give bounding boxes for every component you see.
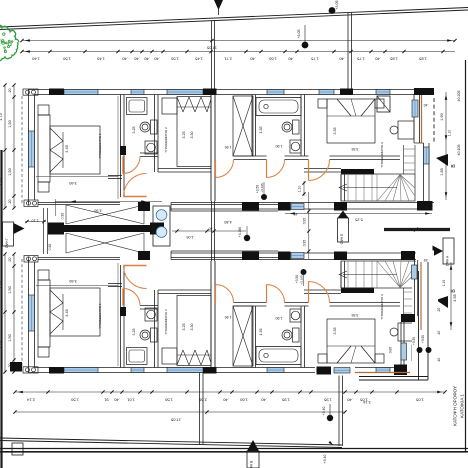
- svg-text:.40: .40: [143, 57, 149, 62]
- top house window N5: [319, 90, 334, 95]
- svg-text:.20: .20: [8, 200, 12, 205]
- top house bed bedroom1: [38, 105, 100, 192]
- bottom house sink bath1: [145, 308, 157, 321]
- bottom house balcony dashed: [433, 319, 435, 364]
- bottom house corridor wall outer: [171, 251, 434, 260]
- svg-text:1.45: 1.45: [194, 57, 203, 62]
- top house south-east corner pier: [417, 201, 433, 211]
- bottom house stair wall west: [341, 261, 345, 288]
- top house shower bath1: [127, 98, 148, 115]
- bottom house wall bath1/BR2: [155, 290, 159, 368]
- svg-text:1.73: 1.73: [0, 112, 3, 121]
- bottom house stairs lower treads: [341, 261, 415, 288]
- svg-text:.40: .40: [113, 398, 119, 403]
- dim 0.95 pair: [294, 192, 311, 259]
- bottom house window N6: [376, 368, 390, 373]
- top house dim 1.35 bath2: [259, 127, 263, 134]
- top house east window 1: [412, 100, 418, 117]
- bottom house bathtub bath2: [256, 347, 301, 365]
- svg-text:5.25: 5.25: [355, 218, 362, 222]
- level marker +3.05 mid: [297, 25, 308, 48]
- dim 5.25 below corridor: [285, 212, 432, 221]
- svg-text:ΚΑΤΟΙΚΙΑ 1: ΚΑΤΟΙΚΙΑ 1: [460, 394, 465, 418]
- svg-text:ΚΑΤΟΨΗ ΟΡΟΦΟΥ: ΚΑΤΟΨΗ ΟΡΟΦΟΥ: [453, 386, 458, 426]
- top house corridor wall outer: [171, 203, 434, 212]
- svg-text:.40: .40: [346, 398, 352, 403]
- dim 3.90 line: [55, 199, 162, 216]
- top house window N2: [131, 90, 144, 95]
- svg-text:+3.40: +3.40: [323, 455, 327, 464]
- top house south pier X column: [138, 202, 150, 211]
- bottom house mid-east pier: [401, 314, 415, 322]
- right column small dims: [424, 258, 446, 362]
- svg-text:0.92: 0.92: [61, 213, 65, 220]
- top house south-west corner detail: [24, 200, 38, 207]
- svg-text:1.01: 1.01: [126, 398, 135, 403]
- bottom house dim 1.90 bath2: [276, 316, 283, 320]
- svg-text:ΥΠΝΟΔΩΜΑΤΙΟ 1: ΥΠΝΟΔΩΜΑΤΙΟ 1: [98, 133, 102, 159]
- top house wall hall stub: [108, 176, 122, 179]
- dimension chain left bottom house: [0, 252, 16, 373]
- svg-text:1.50: 1.50: [8, 334, 12, 341]
- bottom house east window 1: [412, 345, 418, 362]
- svg-text:.40: .40: [374, 57, 380, 62]
- svg-text:1.05: 1.05: [415, 398, 424, 403]
- dim 1.10 vertical mid: [298, 181, 306, 196]
- svg-text:.40: .40: [287, 57, 293, 62]
- bottom house dim 3.35 bedroom3: [333, 313, 358, 335]
- pergola X brace upper: [66, 205, 144, 224]
- bottom house east wall upper: [414, 319, 424, 368]
- svg-text:.55: .55: [424, 258, 429, 262]
- svg-text:17.05: 17.05: [170, 418, 181, 423]
- svg-text:3.35: 3.35: [352, 147, 359, 151]
- svg-text:1.75: 1.75: [310, 57, 319, 62]
- svg-text:.40: .40: [338, 57, 344, 62]
- svg-text:1.90: 1.90: [225, 145, 232, 149]
- top house label bedroom3: [380, 142, 384, 168]
- svg-text:3.25: 3.25: [132, 329, 136, 336]
- bottom house SW porch pier: [10, 362, 22, 372]
- top house bed bedroom2: [177, 97, 211, 167]
- svg-text:40.205: 40.205: [457, 91, 461, 102]
- svg-text:ΟΨΗ Β: ΟΨΗ Β: [250, 461, 254, 468]
- svg-text:1.35: 1.35: [259, 329, 263, 336]
- top house west overhang dashed: [21, 96, 23, 205]
- top house stairs winder fan: [377, 175, 415, 202]
- top house window N4: [267, 90, 284, 95]
- bottom house west wall window: [29, 295, 35, 331]
- bottom house label bedroom3: [380, 294, 384, 320]
- top house label bedroom1: [98, 133, 102, 159]
- level marker +3.166 corridor: [238, 226, 250, 241]
- bottom house wall bath2 west: [252, 306, 256, 368]
- svg-text:3.60: 3.60: [69, 279, 76, 283]
- bottom house east wall lower: [424, 261, 430, 319]
- svg-text:1.45: 1.45: [96, 57, 105, 62]
- bottom house stairs arrow: [339, 271, 397, 278]
- top house north-west corner detail: [23, 89, 38, 95]
- bottom house dim 1.35 bath2: [259, 329, 263, 336]
- top house hall north wall right: [215, 156, 400, 160]
- svg-text:3.90: 3.90: [94, 209, 101, 213]
- bottom house east wall real: [415, 260, 418, 316]
- top house stairs arrow: [339, 184, 397, 191]
- top house balcony rail brown: [421, 95, 423, 143]
- corridor dims: [172, 220, 246, 239]
- top house dim 4.45 bedroom1: [65, 145, 69, 152]
- bottom house south-east corner pier: [417, 252, 433, 262]
- bridge wall bar: [48, 223, 164, 235]
- level marker +3.50 bottom hall: [295, 269, 307, 286]
- top house dim 1.90 bath2: [276, 144, 283, 148]
- svg-text:3.60: 3.60: [69, 181, 76, 185]
- bottom house corridor wall pier B: [334, 252, 347, 261]
- elevation marker OPSI A right: [433, 238, 455, 266]
- svg-text:1.85: 1.85: [418, 57, 427, 62]
- north arrow top: [214, 0, 223, 15]
- top house west wall window: [29, 131, 35, 167]
- dim 3.90 and 0.92 texts: [48, 209, 102, 251]
- svg-text:1.40: 1.40: [31, 57, 40, 62]
- bottom house wall bath2/BR3: [301, 306, 305, 368]
- svg-text:1.50: 1.50: [164, 398, 173, 403]
- bottom house pier bath1 door: [120, 307, 126, 316]
- party wall terrace segment: [212, 201, 215, 261]
- svg-text:+3.50: +3.50: [295, 275, 299, 284]
- svg-text:1.90: 1.90: [225, 315, 232, 319]
- top house south wall main: [38, 203, 120, 205]
- svg-text:.40: .40: [437, 358, 441, 363]
- top house party wall: [211, 95, 215, 202]
- svg-text:ΟΨΗ Α: ΟΨΗ Α: [445, 255, 449, 266]
- bottom house east window 2: [424, 298, 430, 315]
- level marker +3.40 b: [323, 441, 333, 464]
- bottom house stairs upper flight: [404, 288, 416, 317]
- bottom house wall BR1 east: [121, 265, 125, 368]
- svg-text:1.90: 1.90: [276, 144, 283, 148]
- bottom house north-east corner pier: [414, 367, 434, 374]
- svg-text:1.85: 1.85: [389, 57, 398, 62]
- bottom house south wall main: [38, 258, 120, 260]
- bottom house wall BR2 south: [158, 290, 211, 294]
- bottom house wall bath1 south: [140, 306, 158, 310]
- top house corridor window S1: [291, 204, 304, 210]
- top house dresser bedroom2: [162, 98, 177, 114]
- top house dim lines bedroom1: [36, 96, 118, 199]
- junction dot top boundary: [329, 0, 339, 13]
- bottom house hall north wall right: [215, 303, 400, 307]
- balcony bottom-right rails: [359, 262, 428, 380]
- svg-text:1.10: 1.10: [32, 219, 39, 223]
- svg-text:+3.165: +3.165: [300, 275, 304, 285]
- top house toilet bath2: [282, 120, 299, 134]
- svg-text:ΟΨΗ Γ: ΟΨΗ Γ: [5, 238, 9, 248]
- svg-text:1.50: 1.50: [8, 286, 12, 293]
- svg-text:1.50: 1.50: [62, 57, 71, 62]
- svg-text:1.50: 1.50: [8, 168, 12, 175]
- svg-text:1.90: 1.90: [276, 316, 283, 320]
- elevation marker OPSI G left: [3, 222, 25, 248]
- svg-text:17.05: 17.05: [206, 46, 217, 51]
- bottom house bedroom3 south wall black: [341, 288, 374, 294]
- dim 1.10 left terrace: [25, 219, 46, 224]
- svg-text:0.80: 0.80: [389, 347, 393, 354]
- elevation marker OPSI E middle: [338, 211, 349, 245]
- bottom house window N3: [167, 368, 203, 373]
- svg-text:1.10: 1.10: [442, 280, 446, 287]
- svg-text:.40: .40: [209, 227, 214, 231]
- bottom house stairs winder fan: [377, 261, 415, 288]
- svg-text:+3.50: +3.50: [421, 335, 425, 343]
- svg-text:+3.05: +3.05: [297, 29, 301, 38]
- top house corridor wall pier A: [278, 202, 291, 211]
- level marker +3.50 top hall: [256, 182, 268, 200]
- bottom house south pier X column: [138, 251, 150, 260]
- top house bedroom3 south wall black: [341, 169, 374, 175]
- svg-text:.20: .20: [437, 308, 441, 313]
- svg-text:ΥΠΝΟΔΩΜΑΤΙΟ 3: ΥΠΝΟΔΩΜΑΤΙΟ 3: [380, 294, 384, 320]
- svg-text:.40: .40: [424, 103, 429, 107]
- svg-text:1.35: 1.35: [259, 127, 263, 134]
- svg-text:ΥΠΝΟΔΩΜΑΤΙΟ 2: ΥΠΝΟΔΩΜΑΤΙΟ 2: [164, 127, 168, 153]
- bottom house shower bath1: [127, 348, 148, 365]
- pergola X brace lower: [66, 233, 144, 253]
- svg-text:1.90: 1.90: [440, 113, 444, 120]
- top house door hall 1: [216, 160, 234, 178]
- svg-text:.40: .40: [437, 331, 441, 336]
- bottom house party wall: [211, 261, 215, 368]
- svg-text:ΥΠΝΟΔΩΜΑΤΙΟ 3: ΥΠΝΟΔΩΜΑΤΙΟ 3: [380, 142, 384, 168]
- bottom house window N1: [64, 368, 98, 373]
- top house dim 3.25 bedroom2: [182, 132, 186, 139]
- svg-text:ΟΨΗ Ε: ΟΨΗ Ε: [340, 234, 344, 244]
- top house stair north edge: [304, 169, 341, 173]
- svg-text:.40: .40: [249, 57, 255, 62]
- svg-text:+3.50: +3.50: [256, 185, 260, 194]
- top house toilet bath1: [140, 120, 157, 134]
- top house wall bath1/BR2: [155, 95, 159, 173]
- svg-text:1.50: 1.50: [170, 57, 179, 62]
- svg-text:1.75: 1.75: [356, 57, 365, 62]
- svg-text:1.10: 1.10: [448, 130, 452, 137]
- top house door bath1: [123, 157, 140, 174]
- top house void column: [377, 96, 428, 112]
- bottom house label bedroom1: [98, 303, 102, 329]
- svg-text:3.35: 3.35: [333, 328, 337, 335]
- level marker +3.40 a: [322, 404, 333, 421]
- svg-text:.91: .91: [103, 398, 109, 403]
- bottom house dim 3.25 bedroom2: [182, 324, 186, 331]
- top house window N3: [167, 90, 203, 95]
- top house stairs lower treads: [341, 174, 415, 201]
- bottom house NE pier real: [401, 251, 415, 260]
- level dots bottom right: [389, 335, 432, 353]
- title katopsi orofou: [453, 386, 458, 426]
- svg-text:.40: .40: [260, 398, 266, 403]
- site boundary top double line: [0, 8, 468, 30]
- top house north wall pier 3: [340, 89, 353, 96]
- bottom house dim 3.30 bedroom2: [190, 324, 194, 331]
- bottom house dim 3.25 bath1: [132, 329, 136, 336]
- top house wall BR2 south: [158, 169, 211, 173]
- boundary wall vertical x201 bottom: [200, 371, 204, 445]
- bottom house stair north edge: [304, 290, 341, 294]
- boundary wall vertical x349 top: [348, 13, 352, 89]
- top house wall bath2/BR3: [301, 95, 305, 157]
- svg-text:3.30: 3.30: [190, 324, 194, 331]
- bottom house label bedroom2: [164, 309, 168, 335]
- top house east window 2: [424, 147, 430, 164]
- elevation marker OPSI B bottom: [247, 440, 259, 468]
- top house dim 3.60 bedroom1: [69, 181, 76, 185]
- bottom house west overhang dashed: [21, 257, 23, 366]
- top house east wall upper: [414, 95, 424, 144]
- top house wall BR1 east: [121, 95, 125, 198]
- top house window N6: [376, 90, 390, 95]
- svg-text:3.25: 3.25: [182, 132, 186, 139]
- dimension chain right bottom house: [450, 262, 457, 330]
- bottom house door bath2: [267, 285, 285, 303]
- bottom house north wall pier 1: [49, 367, 64, 374]
- planter with two circles: [153, 206, 170, 246]
- top house north wall pier 1: [49, 89, 64, 96]
- top house sink bath2: [290, 140, 301, 153]
- bottom house door hall 1: [216, 285, 234, 303]
- bottom house north-west corner detail: [23, 367, 38, 373]
- top house door bath2: [267, 160, 285, 178]
- bottom house bed bedroom2: [177, 296, 211, 366]
- bottom house door bath1: [123, 289, 140, 306]
- dimension chain left top house: [0, 83, 16, 209]
- bottom house dim 1.90 hall door: [225, 315, 232, 319]
- top house closet column: [233, 96, 253, 156]
- bottom house bed bedroom1: [38, 270, 100, 357]
- terrace west wall lines: [44, 208, 48, 254]
- svg-text:1.73: 1.73: [0, 177, 3, 186]
- top house bathtub bath2: [256, 98, 301, 116]
- svg-text:+3.165: +3.165: [260, 183, 264, 193]
- patch white-out bottom SE corner: [406, 251, 438, 379]
- svg-text:ΥΠΝΟΔΩΜΑΤΙΟ 1: ΥΠΝΟΔΩΜΑΤΙΟ 1: [98, 303, 102, 329]
- bottom house dresser bedroom2: [162, 348, 177, 364]
- top house wall bath2 west: [252, 95, 256, 157]
- bottom house east wall lower: [401, 322, 404, 366]
- svg-text:4.45: 4.45: [65, 145, 69, 152]
- top house dim 1.90 hall door: [225, 145, 232, 149]
- top house dim 3.35 bedroom3: [333, 128, 358, 152]
- elevation marker small bottom-left: [12, 443, 23, 455]
- svg-text:3.35: 3.35: [333, 128, 337, 135]
- svg-text:.40: .40: [222, 398, 228, 403]
- svg-text:3.25: 3.25: [132, 127, 136, 134]
- top house door bedroom3: [309, 160, 330, 181]
- balcony brown rail bottom: [348, 262, 421, 373]
- bottom house east window upper: [412, 265, 418, 279]
- svg-text:3.30: 3.30: [190, 132, 194, 139]
- bottom house north wall pier 3: [340, 367, 353, 374]
- svg-text:+3.05: +3.05: [335, 0, 339, 9]
- top house north-east corner pier: [414, 88, 434, 95]
- dimension chain bottom rowB: [13, 400, 370, 423]
- dimension chain bottom rowA: [13, 390, 446, 402]
- top house stair wall west: [341, 175, 345, 202]
- top house east wall lower: [424, 143, 430, 201]
- svg-text:2.56: 2.56: [198, 398, 207, 403]
- svg-text:1.95: 1.95: [323, 398, 332, 403]
- bottom house west wall: [29, 257, 35, 373]
- dimension chain top row2: [20, 50, 455, 62]
- bottom house window N5: [319, 368, 334, 373]
- bottom house wall hall stub: [108, 284, 122, 287]
- svg-text:3.16: 3.16: [363, 400, 370, 404]
- top house wall bath1 south: [140, 153, 158, 157]
- svg-text:1.60: 1.60: [268, 57, 277, 62]
- svg-text:2.71: 2.71: [223, 57, 232, 62]
- top house desk bedroom3: [390, 121, 414, 139]
- boundary wall vertical x340 bottom: [339, 371, 343, 446]
- top house stairs upper flight: [404, 145, 416, 174]
- svg-text:2.14: 2.14: [26, 398, 35, 403]
- svg-text:+3.35: +3.35: [412, 337, 416, 345]
- svg-text:.40: .40: [133, 57, 139, 62]
- svg-text:1.50: 1.50: [70, 398, 79, 403]
- bottom house desk bedroom3: [390, 323, 414, 341]
- top house corridor wall pier A0: [242, 202, 259, 211]
- top house pier bath1 door: [120, 146, 126, 155]
- site boundary bottom double line: [0, 438, 342, 448]
- svg-text:1.10: 1.10: [298, 186, 302, 193]
- bottom house east window lower: [401, 343, 407, 360]
- patch bottom south wall pier/window swap: [315, 366, 355, 376]
- bottom house dim lines bedroom1: [36, 263, 118, 366]
- top house window N1: [64, 90, 98, 95]
- dim .16 right corridor: [426, 265, 431, 269]
- bottom house toilet bath2: [282, 328, 299, 342]
- svg-text:3.25: 3.25: [182, 324, 186, 331]
- svg-text:1.85: 1.85: [440, 168, 444, 175]
- tree: [0, 25, 19, 60]
- svg-text:40.105: 40.105: [457, 145, 461, 156]
- bottom house sink bath2: [290, 309, 301, 322]
- bottom house dim 4.45 bedroom1: [65, 309, 69, 316]
- bottom house dim 3.60 bedroom1: [69, 279, 76, 283]
- top house label bedroom2: [164, 127, 168, 153]
- top house balcony dashed: [433, 98, 435, 143]
- bottom house corridor window S1: [291, 253, 304, 259]
- top house corridor wall pier B: [334, 202, 347, 211]
- svg-text:.20: .20: [8, 89, 12, 94]
- svg-text:1.73: 1.73: [0, 280, 3, 289]
- svg-text:.20: .20: [8, 258, 12, 263]
- svg-text:4.80: 4.80: [224, 220, 231, 224]
- svg-text:3.35: 3.35: [352, 313, 359, 317]
- dimension chain top row1: [20, 39, 456, 51]
- bottom house bed bedroom3: [318, 319, 384, 363]
- svg-text:1.95: 1.95: [281, 398, 290, 403]
- top house dim 3.25 bath1: [132, 127, 136, 134]
- svg-text:4.55: 4.55: [453, 294, 457, 301]
- svg-text:4.45: 4.45: [65, 309, 69, 316]
- east boundary heavy wall: [384, 227, 450, 231]
- svg-text:0.92: 0.92: [48, 244, 52, 251]
- bottom house south-west corner detail: [24, 256, 38, 263]
- svg-text:ΥΠΝΟΔΩΜΑΤΙΟ 2: ΥΠΝΟΔΩΜΑΤΙΟ 2: [164, 309, 168, 335]
- bottom house window N2: [131, 368, 144, 373]
- bottom house north wall pier 2: [203, 367, 217, 374]
- bottom house window N4: [267, 368, 284, 373]
- bottom house corridor wall pier A0: [242, 252, 259, 261]
